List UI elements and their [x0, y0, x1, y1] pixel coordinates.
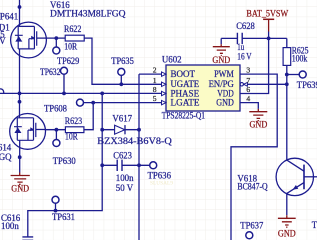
svg-text:GND: GND [278, 228, 296, 238]
svg-text:TPS28225-Q1: TPS28225-Q1 [162, 110, 205, 120]
svg-text:TP639: TP639 [297, 80, 317, 90]
svg-text:TP631: TP631 [52, 212, 75, 222]
svg-text:2: 2 [153, 66, 157, 75]
svg-text:100n: 100n [1, 221, 19, 231]
svg-text:BC847-Q: BC847-Q [237, 181, 268, 191]
svg-text:TP608: TP608 [44, 104, 68, 114]
svg-text:10R: 10R [65, 132, 78, 142]
svg-text:PWM: PWM [214, 69, 234, 79]
svg-text:BZX384-B6V8-Q: BZX384-B6V8-Q [97, 136, 172, 146]
svg-text:TP637: TP637 [240, 221, 264, 231]
svg-text:100n: 100n [116, 173, 134, 183]
svg-text:10R: 10R [64, 42, 77, 52]
svg-text:5: 5 [153, 94, 157, 103]
svg-text:TP: TP [312, 220, 317, 230]
svg-text:TP635: TP635 [111, 56, 134, 66]
svg-text:100k: 100k [292, 53, 308, 63]
svg-text:V614: V614 [0, 142, 12, 152]
svg-text:LGATE: LGATE [171, 98, 200, 108]
svg-text:16 V: 16 V [237, 51, 252, 61]
svg-text:7: 7 [246, 76, 250, 85]
svg-text:V617: V617 [112, 113, 132, 123]
svg-text:FGQ: FGQ [0, 152, 12, 162]
svg-text:GND: GND [250, 119, 268, 129]
svg-text:C628: C628 [236, 21, 255, 31]
svg-text:SLUSAL9: SLUSAL9 [150, 180, 173, 186]
svg-text:50 V: 50 V [116, 183, 134, 193]
svg-text:TP632: TP632 [40, 67, 61, 77]
svg-text:GND: GND [216, 98, 234, 108]
svg-text:6: 6 [246, 85, 250, 94]
svg-text:TP636: TP636 [148, 171, 172, 181]
svg-text:3: 3 [246, 66, 250, 75]
svg-text:R623: R623 [65, 116, 83, 126]
svg-text:BAT_5VSW: BAT_5VSW [246, 9, 288, 19]
svg-text:DMTH43M8LFGQ: DMTH43M8LFGQ [50, 8, 126, 18]
svg-text:TP629: TP629 [57, 56, 80, 66]
svg-text:GND: GND [11, 184, 29, 194]
svg-text:U602: U602 [162, 54, 182, 64]
svg-text:1: 1 [153, 76, 157, 85]
svg-text:4: 4 [246, 94, 250, 103]
svg-text:GND: GND [212, 55, 230, 65]
svg-text:V: V [0, 36, 6, 46]
svg-text:BOOT: BOOT [171, 69, 196, 79]
svg-text:8: 8 [153, 85, 157, 94]
svg-text:TP630: TP630 [53, 156, 77, 166]
svg-text:TP641: TP641 [0, 11, 18, 21]
svg-text:R622: R622 [64, 24, 81, 34]
svg-text:C623: C623 [113, 151, 132, 161]
